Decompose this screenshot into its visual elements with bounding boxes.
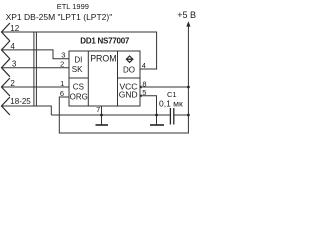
svg-text:2: 2 (60, 60, 64, 69)
svg-text:2: 2 (10, 79, 15, 88)
svg-text:12: 12 (10, 24, 19, 33)
svg-text:DI: DI (74, 55, 82, 64)
svg-text:0,1 мк: 0,1 мк (159, 99, 183, 109)
svg-text:3: 3 (12, 60, 17, 69)
svg-text:5: 5 (142, 88, 146, 97)
svg-text:CS: CS (73, 82, 84, 91)
svg-text:6: 6 (60, 89, 64, 98)
svg-text:ETL 1999: ETL 1999 (57, 2, 89, 11)
svg-text:+5 В: +5 В (177, 10, 196, 20)
svg-text:PROM: PROM (90, 54, 116, 64)
svg-text:SK: SK (72, 65, 83, 74)
svg-text:XP1 DB-25M "LPT1 (LPT2)": XP1 DB-25M "LPT1 (LPT2)" (6, 12, 113, 22)
svg-text:18-25: 18-25 (10, 97, 31, 106)
svg-text:GND: GND (119, 90, 138, 100)
svg-text:ORG: ORG (70, 93, 88, 102)
svg-text:DD1 NS77007: DD1 NS77007 (80, 36, 130, 45)
svg-text:7: 7 (96, 105, 100, 114)
svg-text:DO: DO (123, 65, 135, 74)
svg-text:3: 3 (61, 51, 65, 60)
svg-text:4: 4 (10, 42, 15, 51)
svg-text:1: 1 (60, 79, 64, 88)
svg-text:4: 4 (142, 61, 146, 70)
